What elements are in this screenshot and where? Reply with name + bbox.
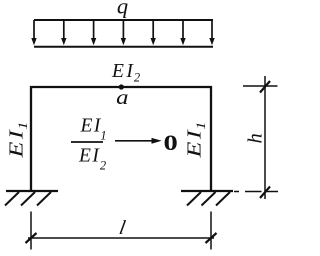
node a dot [119,84,124,89]
left support hatch 1 [5,192,19,206]
load arrow 1 [31,20,36,45]
dimension l line [28,237,214,239]
right fixed support ground line [181,190,233,192]
right support hatch 1 [187,192,201,206]
right support hatch 2 [202,192,216,206]
frame beam EI2 [30,86,212,88]
left fixed support ground line [6,190,58,192]
load arrow 2 [61,20,66,45]
dimension h top tick [260,81,270,93]
dimension h top extension line [243,85,278,87]
svg-text:a: a [116,86,128,109]
svg-text:h: h [245,133,267,143]
left support hatch 3 [37,192,51,206]
right column EI1 [210,86,212,191]
load arrow 3 [91,20,96,45]
limit arrow [115,138,162,144]
left support hatch 2 [21,192,35,206]
dimension l right extension line [210,212,212,250]
load arrow 4 [121,20,126,45]
fraction bar [71,141,103,143]
dimension l left tick [26,233,37,243]
dimension h bottom extension line (dashed) [234,191,278,193]
dimension l left extension line [30,212,32,250]
svg-text:q: q [117,0,128,19]
left column EI1 [30,86,32,191]
svg-text:0: 0 [163,130,177,155]
distributed load top line [34,19,213,21]
load arrow 6 [180,20,185,45]
dimension l right tick [206,233,217,243]
right support hatch 3 [216,192,230,206]
distributed load baseline [34,46,213,48]
dimension h line [264,76,266,199]
load arrow 5 [151,20,156,45]
dimension h bottom tick [260,187,270,199]
load arrow 7 [209,20,214,45]
